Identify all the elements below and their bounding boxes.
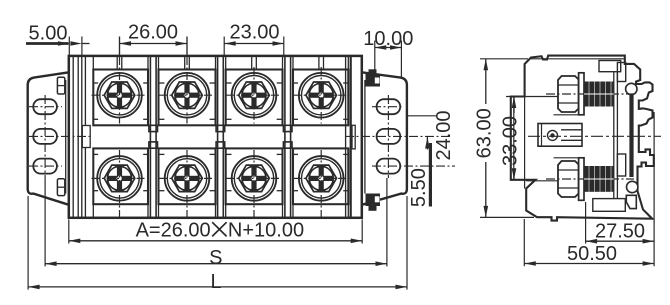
svg-text:10.00: 10.00 xyxy=(363,28,413,50)
svg-text:S: S xyxy=(209,247,222,269)
svg-text:5.00: 5.00 xyxy=(29,23,68,45)
svg-text:A=26.00: A=26.00 xyxy=(136,220,211,242)
svg-text:23.00: 23.00 xyxy=(229,22,279,44)
svg-text:50.50: 50.50 xyxy=(567,243,617,265)
svg-text:26.00: 26.00 xyxy=(128,22,178,44)
svg-text:5.50: 5.50 xyxy=(408,168,430,207)
svg-text:63.00: 63.00 xyxy=(473,108,495,158)
svg-text:L: L xyxy=(210,271,221,293)
svg-text:27.50: 27.50 xyxy=(595,221,645,243)
svg-text:N+10.00: N+10.00 xyxy=(228,220,304,242)
svg-text:24.00: 24.00 xyxy=(433,110,455,160)
svg-text:33.00: 33.00 xyxy=(500,116,522,166)
